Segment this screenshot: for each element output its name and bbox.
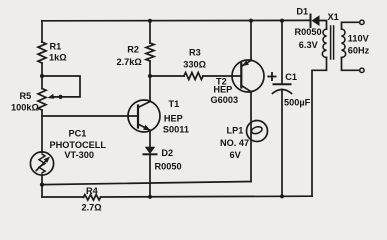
svg-text:R4: R4 [86,186,99,196]
svg-text:HEP: HEP [213,85,232,95]
transformer X1 secondary (110V winding) [342,29,346,58]
wire photocell to bottom [41,175,43,197]
transformer X1 primary (6.3V winding) [322,29,326,58]
svg-text:110V: 110V [348,34,370,44]
svg-text:R5: R5 [20,91,32,101]
svg-text:60Hz: 60Hz [348,46,370,56]
diode D2 [145,147,155,154]
node C1 bottom junction [280,194,284,198]
lamp LP1 [247,121,268,142]
node R2 top junction [148,19,152,23]
svg-text:D1: D1 [296,7,308,17]
potentiometer R5 wiper arrow [47,94,54,99]
transistor T2 [232,60,264,92]
wire 110V bottom lead [342,58,360,71]
svg-text:T1: T1 [169,99,180,109]
wire T1 base [42,115,138,117]
svg-text:LP1: LP1 [227,125,244,135]
node wiper junction [58,95,62,99]
wire left rail upper [41,21,43,42]
wire lamp return (line A) [42,182,251,185]
transistor T2 emitter arrow [242,60,249,66]
wire D2 to bottom rail [149,154,151,197]
node D2 bottom junction [148,195,152,199]
capacitor C1 [281,21,283,84]
svg-text:R0050: R0050 [155,162,182,172]
svg-text:R0050: R0050 [295,27,322,37]
wire junction to R3 [150,75,184,77]
photocell PC1 [30,152,53,175]
node R1/R5 junction [40,74,44,78]
wire rail to R2 [149,21,151,43]
wire R1 to R5 [41,63,43,89]
photocell PC1 internal resistor [39,154,45,173]
wire top rail [42,19,311,21]
wire R5 feedback loop [42,76,80,97]
svg-text:VT-300: VT-300 [64,150,94,160]
svg-text:1kΩ: 1kΩ [49,53,67,63]
svg-text:S0011: S0011 [163,125,189,135]
wire R2 to junction [149,61,151,76]
svg-text:R2: R2 [127,45,139,55]
wire T2 collector to lamp [250,92,252,182]
svg-text:PC1: PC1 [69,128,87,138]
svg-text:2.7kΩ: 2.7kΩ [117,57,142,67]
svg-text:2.7Ω: 2.7Ω [82,202,102,212]
svg-text:500µF: 500µF [284,98,311,108]
wire bottom rail left [42,196,84,198]
svg-text:D2: D2 [161,148,173,158]
diode D1 [310,15,312,28]
node R2/R3/T1 junction [148,74,152,78]
svg-text:6.3V: 6.3V [299,40,319,50]
node T2 rail junction [249,19,253,23]
resistor R1 [38,42,46,63]
wire bottom rail right [101,195,313,198]
svg-text:X1: X1 [328,12,339,22]
svg-text:100kΩ: 100kΩ [11,102,39,112]
transformer X1 core [330,26,332,59]
svg-text:R3: R3 [189,48,201,58]
wire T2 emitter to rail [250,21,252,61]
terminal 110V top [360,20,364,24]
svg-text:HEP: HEP [164,114,183,124]
resistor R2 [146,43,154,61]
transistor T1 emitter arrow [143,125,151,131]
terminal 110V bottom [360,68,364,72]
wire 110V top lead [342,22,360,29]
wire R3 to T2 base [203,75,241,77]
node photocell / lamp-return junction [40,183,44,187]
resistor R3 [184,73,203,80]
svg-text:G6003: G6003 [211,95,239,105]
svg-text:C1: C1 [285,72,297,82]
C1 plus sign [268,76,275,78]
resistor R5 [38,89,46,111]
svg-text:NO. 47: NO. 47 [220,138,249,148]
wire junction to T1 collector [149,76,151,102]
wire T1 emitter to D2 [149,130,151,147]
transistor T1 [128,100,160,132]
resistor R4 [84,195,101,200]
node C1 top junction [280,19,284,23]
wire R5 to photocell [41,110,43,152]
photocell PC1 light arrow [36,160,46,170]
svg-text:6V: 6V [230,150,242,160]
svg-text:PHOTOCELL: PHOTOCELL [50,140,107,150]
svg-text:330Ω: 330Ω [183,60,206,70]
wire winding bottom return [312,58,327,197]
svg-text:R1: R1 [50,41,62,51]
wire D1 to transformer [320,21,327,30]
